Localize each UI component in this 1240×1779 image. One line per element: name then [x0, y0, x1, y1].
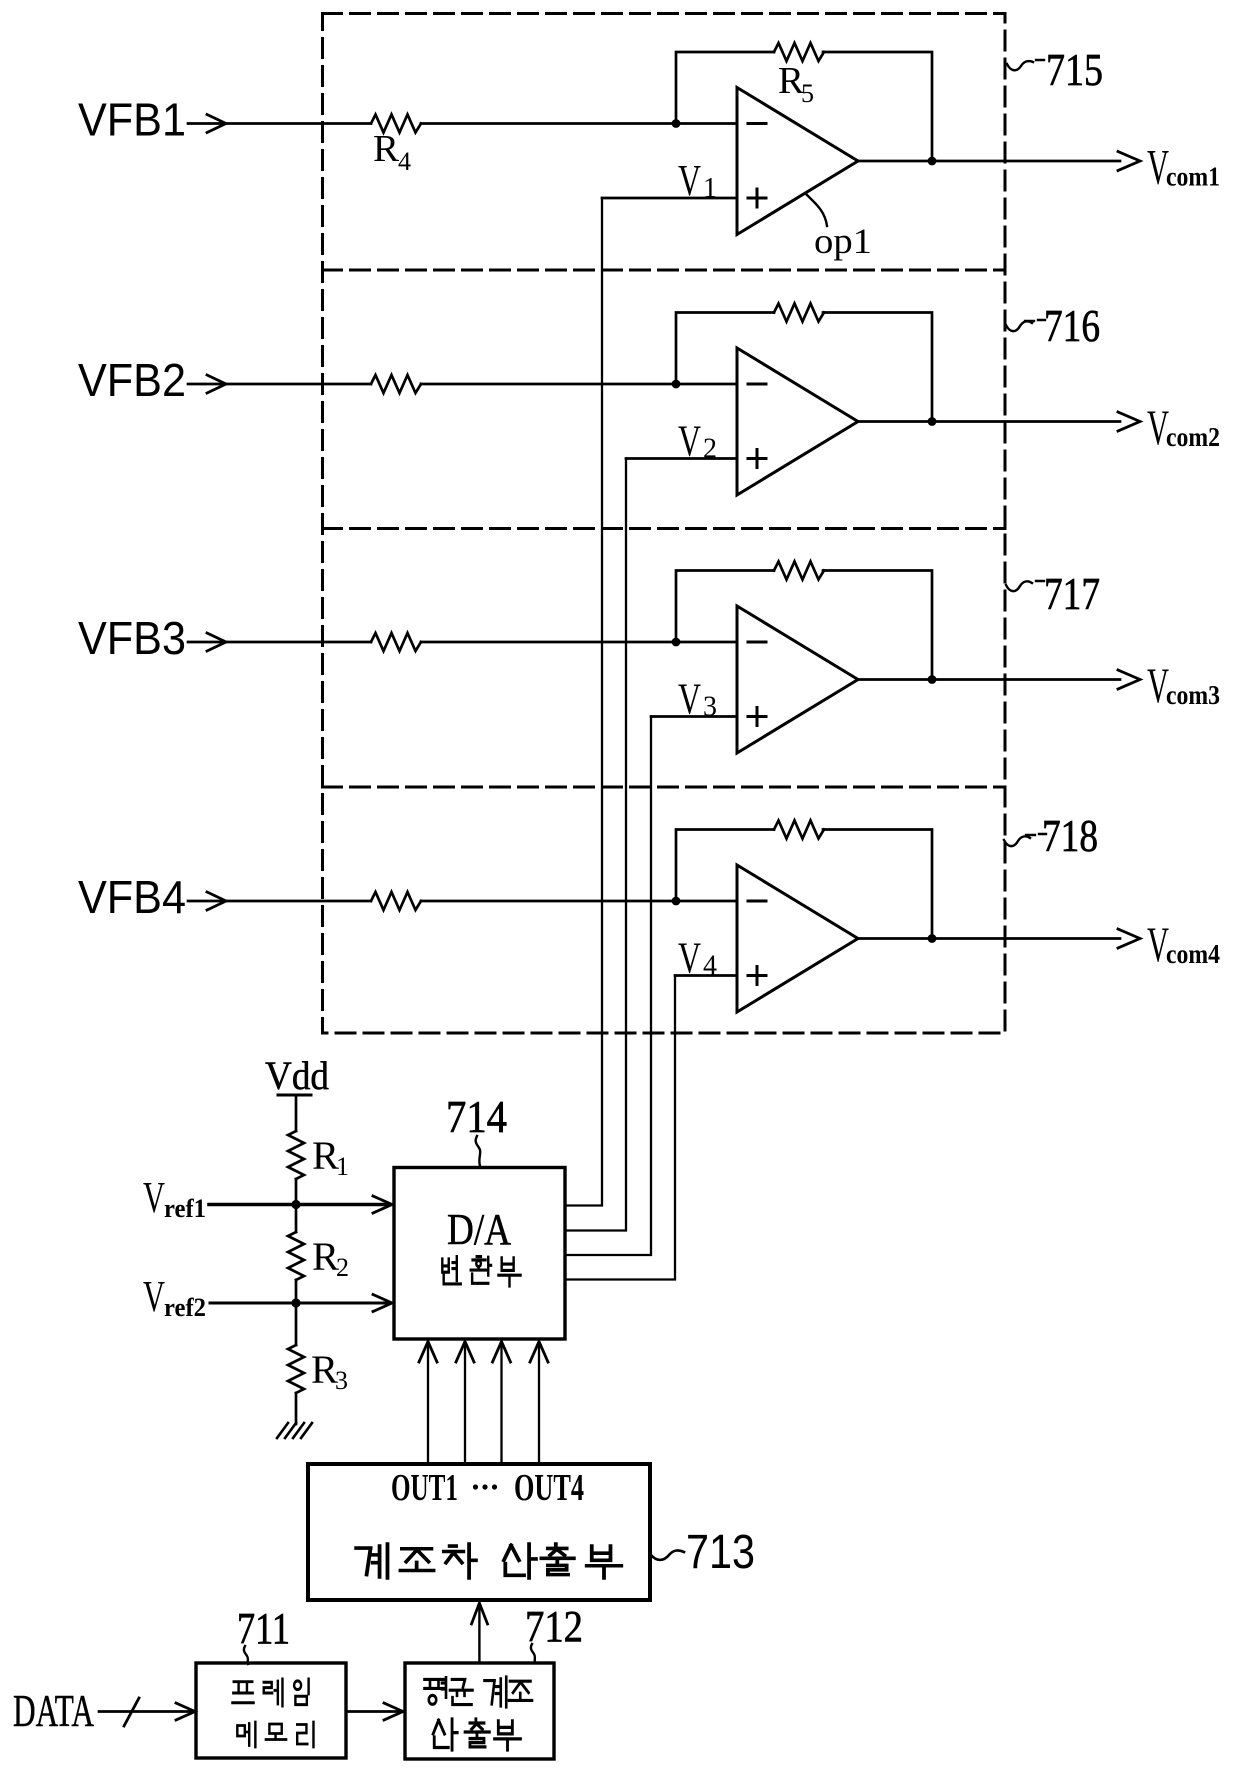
svg-text:V: V — [143, 1272, 165, 1321]
wire V3 vertical riser from D/A converter — [565, 717, 651, 1256]
wire V4 to non-inverting input op4 — [675, 974, 737, 977]
svg-text:Vdd: Vdd — [265, 1053, 329, 1098]
arrowhead OUT2 into D/A bottom — [456, 1342, 474, 1363]
resistor R4 input resistor of op-amp 1 — [371, 115, 421, 133]
node junction at inverting input op2 — [672, 380, 681, 389]
wire VFB2 input line — [188, 383, 371, 386]
svg-text:com4: com4 — [1166, 939, 1220, 969]
svg-text:V: V — [678, 417, 701, 466]
svg-text:712: 712 — [525, 1602, 583, 1651]
svg-text:V: V — [143, 1173, 165, 1222]
label 계조차 산출부 (gray-difference calculator) in 713 box — [356, 1544, 387, 1578]
arrowhead into 713 bottom — [472, 1603, 488, 1624]
arrowhead DATA into 711 — [176, 1703, 195, 1720]
resistor R1 — [288, 1131, 304, 1179]
wire resistor to inverting input op2 — [421, 383, 737, 386]
wire arrow from 712 average-gray calculator up to 713 — [478, 1605, 480, 1663]
svg-text:com2: com2 — [1166, 422, 1220, 452]
wire V1 to non-inverting input op1 — [602, 197, 737, 200]
dashed enclosure box (sections 715-718) — [323, 14, 1006, 1034]
arrowhead Vref1 into D/A — [373, 1196, 392, 1213]
wire VFB3 input line — [188, 641, 371, 644]
section separator dashed line between 717 and 718 — [323, 786, 1006, 789]
wire feedback loop op2 — [676, 313, 932, 422]
label 프레임 (frame) line 1 of 711 box — [232, 1682, 253, 1703]
label 메모리 (memory) line 2 of 711 box — [237, 1722, 255, 1747]
svg-text:V: V — [678, 156, 701, 205]
label 평균계조 (average gray) line 1 of 712 box — [425, 1678, 447, 1705]
bus slash on DATA wire — [124, 1698, 139, 1726]
minus sign inverting input op1 — [748, 122, 766, 125]
wire feedback loop op3 — [676, 571, 932, 680]
ground symbol — [277, 1423, 312, 1438]
wire op2 output to Vcom2 — [858, 420, 1120, 423]
wire feedback loop op1 — [676, 52, 932, 161]
minus sign inverting input op2 — [748, 383, 766, 386]
svg-text:714: 714 — [446, 1091, 507, 1142]
leader squiggle from 711 label to frame memory box — [244, 1646, 248, 1664]
svg-text:1: 1 — [336, 1152, 349, 1181]
plus sign non-inverting input op1 — [748, 189, 766, 207]
op-amp op3 triangle — [737, 606, 858, 753]
svg-text:VFB4: VFB4 — [78, 871, 186, 923]
svg-text:VFB2: VFB2 — [78, 354, 186, 406]
arrowhead on VFB2 input — [207, 375, 226, 393]
svg-text:ref2: ref2 — [164, 1293, 206, 1322]
svg-text:716: 716 — [1044, 300, 1100, 351]
svg-text:VFB1: VFB1 — [78, 94, 186, 146]
section separator dashed line between 715 and 716 — [323, 269, 1006, 272]
wire VFB4 input line — [188, 900, 371, 903]
resistor R3 — [288, 1345, 304, 1393]
wire op4 output to Vcom4 — [858, 937, 1120, 940]
svg-text:2: 2 — [336, 1253, 349, 1282]
ellipsis dots between OUT1 and OUT4 — [473, 1484, 497, 1489]
node junction at op3 output feedback tap — [928, 675, 937, 684]
op-amp op4 triangle — [737, 865, 858, 1012]
wire resistor to inverting input op4 — [421, 900, 737, 903]
svg-text:com1: com1 — [1166, 162, 1220, 192]
svg-text:V: V — [678, 675, 701, 724]
arrowhead into 712 — [384, 1703, 403, 1720]
wire 711 to 712 — [346, 1710, 400, 1713]
arrowhead OUT3 into D/A bottom — [493, 1342, 511, 1363]
leader wavy line from 717 section to label — [1006, 581, 1044, 591]
wire R3 to ground — [295, 1393, 298, 1424]
resistor R2 — [288, 1232, 304, 1280]
svg-text:711: 711 — [237, 1604, 290, 1653]
wire op1 output to Vcom1 — [858, 160, 1120, 163]
node junction at inverting input op3 — [672, 638, 681, 647]
op-amp op2 triangle — [737, 348, 858, 495]
label 변환부 (converter unit) in D/A box — [442, 1257, 460, 1284]
block 714 D/A converter box — [394, 1168, 565, 1340]
svg-text:1: 1 — [703, 173, 717, 204]
plus sign non-inverting input op2 — [748, 450, 766, 468]
svg-text:R: R — [373, 128, 400, 170]
wire OUT2 from gray-difference calculator to D/A — [464, 1344, 466, 1464]
resistor R4 input resistor of op-amp 4 — [371, 892, 421, 910]
svg-text:VFB3: VFB3 — [78, 612, 186, 664]
svg-text:com3: com3 — [1166, 680, 1220, 710]
arrowhead on Vcom3 output — [1118, 670, 1140, 689]
svg-text:5: 5 — [801, 79, 814, 108]
arrowhead on VFB1 input — [207, 115, 226, 133]
arrowhead on VFB3 input — [207, 633, 226, 651]
wire V2 vertical riser from D/A converter — [565, 459, 626, 1231]
wire resistor to inverting input op3 — [421, 641, 737, 644]
resistor R4 input resistor of op-amp 2 — [371, 375, 421, 393]
wire resistor to inverting input op1 — [421, 122, 737, 125]
label 산출부 (calculator) line 2 of 712 box — [433, 1719, 457, 1750]
Vdd supply bar — [278, 1094, 311, 1097]
svg-text:op1: op1 — [814, 221, 872, 261]
wire V4 vertical riser from D/A converter — [565, 976, 675, 1280]
wire feedback loop op4 — [676, 830, 932, 939]
resistor R5 feedback resistor of op1 — [774, 43, 824, 61]
plus sign non-inverting input op3 — [748, 708, 766, 726]
svg-text:D/A: D/A — [447, 1205, 511, 1254]
svg-text:718: 718 — [1042, 810, 1098, 861]
block 713 gray-difference calculator box — [308, 1464, 650, 1600]
node junction Vref2 tap — [291, 1298, 300, 1307]
resistor R5 feedback resistor of op3 — [774, 562, 824, 580]
wire V2 to non-inverting input op2 — [626, 457, 737, 460]
wire VFB1 input line — [188, 122, 371, 125]
wire OUT1 from gray-difference calculator to D/A — [427, 1344, 429, 1464]
wire OUT4 from gray-difference calculator to D/A — [538, 1344, 540, 1464]
svg-text:DATA: DATA — [13, 1685, 94, 1736]
arrowhead OUT1 into D/A bottom — [419, 1342, 437, 1363]
block 711 frame memory box — [196, 1663, 346, 1758]
wire op3 output to Vcom3 — [858, 678, 1120, 681]
wire R1 to Vref1 node — [295, 1179, 298, 1232]
wire R2 to R3 — [295, 1280, 298, 1345]
block 712 average-gray calculator box — [405, 1663, 554, 1759]
leader wavy line from 716 section to label — [1006, 320, 1045, 331]
leader wavy line from 718 section to label — [1004, 834, 1046, 846]
svg-text:OUT1: OUT1 — [391, 1467, 458, 1509]
resistor R5 feedback resistor of op4 — [774, 821, 824, 839]
svg-text:4: 4 — [703, 951, 717, 982]
leader wavy line from 715 section to label — [1007, 60, 1044, 70]
section separator dashed line between 716 and 717 — [323, 527, 1006, 530]
svg-text:OUT4: OUT4 — [514, 1467, 584, 1509]
arrowhead on Vcom4 output — [1118, 929, 1140, 948]
node junction Vref1 tap — [291, 1200, 300, 1209]
node junction at inverting input op1 — [672, 119, 681, 128]
node junction at op1 output feedback tap — [928, 157, 937, 166]
minus sign inverting input op3 — [748, 641, 766, 644]
svg-text:713: 713 — [686, 1526, 755, 1579]
resistor R5 feedback resistor of op2 — [774, 304, 824, 322]
resistor R4 input resistor of op-amp 3 — [371, 633, 421, 651]
svg-text:ref1: ref1 — [164, 1194, 206, 1223]
arrowhead on VFB4 input — [207, 892, 226, 910]
node junction at inverting input op4 — [672, 897, 681, 906]
plus sign non-inverting input op4 — [748, 967, 766, 985]
svg-text:3: 3 — [335, 1366, 348, 1395]
leader tilde from 713 box to 713 label — [651, 1550, 684, 1559]
wire DATA input — [99, 1710, 192, 1713]
op-amp op1 triangle — [737, 88, 858, 235]
leader curve from op1 triangle to op1 label — [806, 194, 827, 226]
svg-text:V: V — [678, 934, 701, 983]
arrowhead OUT4 into D/A bottom — [530, 1342, 548, 1363]
wire OUT3 from gray-difference calculator to D/A — [500, 1344, 502, 1464]
svg-text:715: 715 — [1046, 44, 1103, 95]
arrowhead Vref2 into D/A — [373, 1295, 392, 1312]
leader squiggle from 714 label to D/A box — [476, 1136, 481, 1166]
arrowhead on Vcom1 output — [1118, 152, 1140, 171]
wire V3 to non-inverting input op3 — [651, 715, 737, 718]
node junction at op4 output feedback tap — [928, 934, 937, 943]
wire Vref1 into D/A — [209, 1203, 388, 1207]
arrowhead on Vcom2 output — [1118, 412, 1140, 431]
wire Vdd rail segment — [295, 1095, 298, 1131]
svg-text:3: 3 — [703, 692, 717, 723]
wire V1 vertical riser from D/A converter — [565, 198, 602, 1206]
svg-text:4: 4 — [398, 147, 411, 176]
svg-text:717: 717 — [1044, 568, 1100, 619]
svg-text:2: 2 — [703, 434, 717, 465]
node junction at op2 output feedback tap — [928, 417, 937, 426]
minus sign inverting input op4 — [748, 900, 766, 903]
leader squiggle from 712 label to average-gray box — [531, 1644, 535, 1663]
wire Vref2 into D/A — [210, 1302, 388, 1305]
